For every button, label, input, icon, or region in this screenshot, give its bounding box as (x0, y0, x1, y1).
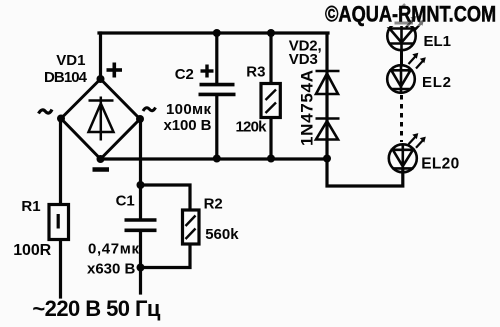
resistor R1 (49, 205, 69, 240)
svg-text:120k: 120k (236, 118, 268, 135)
resistor R2 (183, 210, 200, 244)
svg-text:EL20: EL20 (421, 156, 459, 173)
R3 inner slashes (266, 90, 277, 114)
svg-text:x630 В: x630 В (87, 261, 136, 278)
wire C2 bottom (215, 96, 218, 159)
minus sign of bridge (93, 167, 110, 172)
junction dot C1 bottom node (137, 264, 145, 272)
wire fragment showing through watermark (395, 22, 414, 25)
resistor R3 (261, 84, 280, 118)
junction dot bridge right vertex (136, 115, 144, 123)
svg-text:1N4754A: 1N4754A (298, 70, 317, 146)
wire top rail (99, 31, 328, 34)
LED EL20 (389, 144, 417, 172)
svg-text:C1: C1 (116, 193, 135, 210)
svg-text:100R: 100R (13, 242, 51, 259)
emission arrows of EL20 (409, 133, 426, 148)
svg-text:C2: C2 (175, 66, 194, 83)
wire bridge right vertex down to C1 node (139, 119, 142, 185)
R1 inner mark (57, 214, 60, 229)
svg-text:VD3: VD3 (289, 51, 318, 68)
tilde left of bridge (39, 110, 53, 114)
junction dot VD3 bottom (323, 155, 331, 163)
wire bridge top vertex up to rail (99, 33, 102, 79)
junction dot R3 bottom (267, 155, 275, 163)
watermark background (314, 0, 500, 26)
plus sign of C2 (201, 65, 214, 78)
wire VD3 bottom to LED return (327, 159, 403, 187)
svg-text:EL1: EL1 (424, 33, 452, 50)
junction dot C2 bottom (213, 155, 221, 163)
wire C1 top node to plate (139, 185, 142, 219)
zener diode VD2 (316, 71, 340, 94)
svg-text:R3: R3 (246, 63, 265, 80)
junction dot C1 top node (137, 181, 145, 189)
wire R2 top branch (141, 185, 191, 210)
junction dot C2 top (213, 29, 221, 37)
wire bridge left vertex down to R1 (59, 119, 62, 205)
junction dot bridge bottom vertex (97, 155, 105, 163)
wire middle rail from bridge minus (101, 157, 328, 160)
bridge rectifier VD1 diamond (61, 79, 140, 159)
emission arrows of EL2 (409, 53, 426, 69)
svg-text:x100 В: x100 В (164, 117, 212, 134)
diode symbol inside bridge (89, 97, 114, 141)
wire C1 bottom plate to node (139, 231, 142, 268)
junction dot R3 top (267, 29, 275, 37)
wire EL1 to EL2 (400, 51, 403, 66)
wire R3 top (269, 33, 272, 84)
capacitor C1 plates (125, 220, 157, 230)
svg-text:100мк: 100мк (166, 101, 211, 118)
svg-text:560k: 560k (205, 226, 239, 243)
R2 inner slashes (186, 216, 196, 240)
tilde right of bridge (143, 108, 156, 112)
wire C1 node to mains (139, 268, 142, 294)
wire C2 top (215, 33, 218, 83)
svg-text:0,47мк: 0,47мк (88, 241, 139, 258)
emission arrows of EL1 (406, 16, 424, 32)
junction dot bridge top vertex (97, 75, 105, 83)
wire R3 bottom (269, 118, 272, 159)
svg-text:R2: R2 (204, 196, 223, 213)
wire R1 bottom to mains (59, 240, 62, 297)
svg-text:~220 В 50 Гц: ~220 В 50 Гц (32, 296, 160, 321)
svg-text:VD1: VD1 (56, 52, 85, 69)
wire R2 bottom branch (141, 244, 191, 268)
dashed wire EL2 to EL20 (400, 95, 403, 142)
zener diode VD3 (316, 119, 340, 140)
svg-text:DB104: DB104 (44, 69, 88, 86)
LED EL2 (387, 65, 415, 93)
plus sign of bridge (107, 63, 123, 78)
wire VD2 VD3 column (325, 35, 328, 159)
LED EL1 (387, 14, 415, 51)
junction dot bridge left vertex (57, 115, 65, 123)
svg-text:R1: R1 (21, 198, 40, 215)
capacitor C2 plates (199, 85, 236, 95)
svg-text:EL2: EL2 (422, 74, 451, 91)
